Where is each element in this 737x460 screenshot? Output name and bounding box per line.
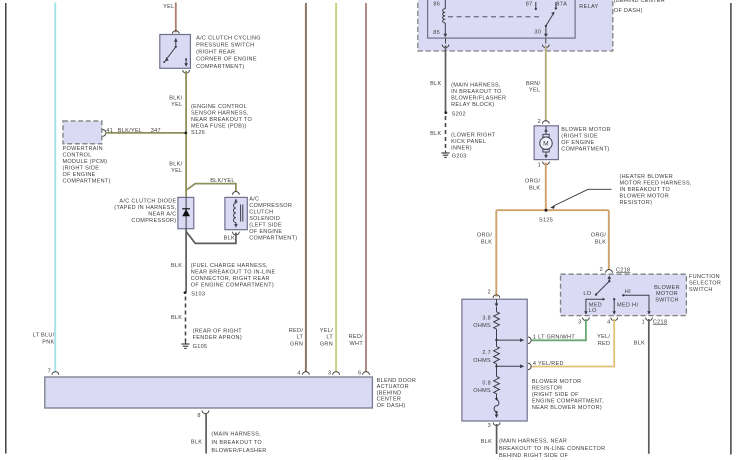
svg-text:FUNCTION: FUNCTION [689,274,720,280]
svg-text:YEL: YEL [163,4,174,10]
pin 1 (blower motor) [538,163,541,169]
actuator M1: blend door actuator box [45,377,373,408]
svg-text:CLUTCH: CLUTCH [249,210,273,216]
wire stub relay pin 30 [545,38,547,44]
label MED LO [589,302,602,314]
svg-text:COMPARTMENT): COMPARTMENT) [63,179,111,185]
svg-text:2: 2 [488,290,491,296]
connector at pressure switch pin (top) [172,31,179,34]
relay coil symbol [443,0,448,37]
svg-text:3.8: 3.8 [482,315,491,321]
ground G105 symbol [181,342,189,349]
switch HI contact and pin 1 path [622,294,651,315]
node S125 junction dot [545,209,548,212]
label: blend door actuator [377,378,417,409]
svg-text:YEL/: YEL/ [320,328,333,334]
wire tap 2 inside resistor [495,364,524,368]
svg-text:FENDER APRON): FENDER APRON) [193,335,242,341]
svg-text:(ENGINE CONTROL: (ENGINE CONTROL [191,104,247,110]
svg-text:COMPARTMENT): COMPARTMENT) [249,236,297,242]
svg-text:CONTROL: CONTROL [63,153,92,159]
svg-text:BLK: BLK [634,341,645,347]
wire YEL/RED (switch pin 4 to resistor tap 2) [532,319,615,367]
svg-text:(LEFT SIDE: (LEFT SIDE [249,223,282,229]
pin 8 (actuator) [197,413,200,419]
value label BLK (resistor ground wire) [481,439,492,445]
pin 3 (actuator) [328,370,331,376]
ground G203 symbol [441,151,449,158]
svg-text:C218: C218 [653,319,667,325]
svg-text:MODULE (PCM): MODULE (PCM) [63,159,108,165]
pin 87 [526,1,533,7]
svg-text:COMPRESSOR): COMPRESSOR) [131,218,176,224]
svg-text:LO: LO [583,291,591,297]
resistor entry arrow [495,299,499,311]
svg-text:RED: RED [598,341,611,347]
svg-text:30: 30 [534,30,541,36]
svg-text:SENSOR HARNESS,: SENSOR HARNESS, [191,110,249,116]
svg-text:GRN: GRN [320,341,333,347]
solenoid coil symbol [234,199,243,228]
label: S103 splice note [191,263,276,289]
wire: right page border [730,3,732,455]
pin bracket at resistor tap 2 [528,363,531,370]
svg-text:WHT: WHT [350,341,364,347]
svg-text:CENTER: CENTER [377,397,402,403]
svg-text:RED/: RED/ [289,328,304,334]
value label 3.8 OHMS [473,315,491,329]
svg-text:RED/: RED/ [349,334,364,340]
svg-text:4 YEL/RED: 4 YEL/RED [533,361,564,367]
label: S125 splice note (heater blower motor feed harness) [620,174,692,206]
relay mechanical link (dashed) [448,16,542,18]
svg-text:NEAR BREAKOUT TO: NEAR BREAKOUT TO [191,117,252,123]
wire tap 1 inside resistor [495,329,524,342]
svg-text:RELAY BLOCK): RELAY BLOCK) [451,102,494,108]
svg-text:SWITCH: SWITCH [689,287,713,293]
svg-text:0.8: 0.8 [482,380,491,386]
svg-text:G203: G203 [452,153,467,159]
svg-text:1 LT GRN/WHT: 1 LT GRN/WHT [533,335,575,341]
svg-text:LT: LT [297,335,304,341]
label: S126 splice note [191,104,252,136]
svg-text:(BEHIND: (BEHIND [377,390,402,396]
svg-text:ENGINE COMPARTMENT,: ENGINE COMPARTMENT, [532,398,604,404]
svg-text:(RIGHT SIDE: (RIGHT SIDE [63,166,100,172]
svg-text:YEL: YEL [529,88,540,94]
label: main harness note (bottom right) [499,439,605,460]
value label ORG/BLK (left branch) [477,233,492,246]
svg-text:(REAR OF RIGHT: (REAR OF RIGHT [193,328,243,334]
svg-text:LT: LT [326,335,333,341]
connector at actuator pin 8 [202,411,209,414]
switch S2: function selector switch dashed box [561,274,687,315]
pin 87A [556,1,567,7]
wire YEL (feed to pressure switch) [175,3,177,33]
svg-text:86: 86 [433,1,440,7]
svg-text:4: 4 [297,370,300,376]
connector at solenoid pin (top) [233,192,240,195]
wire RED/WHT (to actuator pin 6) [365,3,367,372]
svg-text:MOTOR: MOTOR [656,291,678,297]
svg-text:3: 3 [488,423,491,429]
solenoid L1: A/C compressor clutch solenoid box [225,197,247,229]
svg-text:2.7: 2.7 [482,350,491,356]
svg-text:BLK: BLK [430,81,441,87]
svg-text:RELAY: RELAY [579,4,598,10]
label: resistor tap 2 (4 YEL/RED) [533,361,564,367]
label G203 [452,153,467,159]
wire BLK (relay pin 85 to S202) [445,46,447,113]
svg-text:S202: S202 [452,111,466,117]
connector at actuator pin 4 [303,372,310,375]
relay K1: inner box [428,0,575,38]
label: blower motor resistor [532,379,604,411]
svg-text:S125: S125 [539,217,553,223]
connector at actuator pin 3 [333,372,340,375]
switch common arm [595,275,611,295]
svg-text:BLK: BLK [481,240,492,246]
label HI [625,289,631,295]
svg-text:3: 3 [328,370,331,376]
label S103 [191,291,205,297]
leader arrow to S125 [550,189,611,209]
value label YEL/RED [597,334,610,347]
value label 2.7 OHMS [473,350,491,364]
svg-text:BLOWER MOTOR: BLOWER MOTOR [561,127,611,133]
svg-text:S103: S103 [191,291,205,297]
connector at switch pin 4 [611,318,618,321]
value label LT BLU/PNK [33,333,55,346]
svg-text:CONNECTOR, RIGHT REAR: CONNECTOR, RIGHT REAR [191,276,270,282]
pin 6 (actuator) [358,370,361,376]
value label BLK (solenoid return) [224,235,235,241]
connector C218 at switch pin 2 [606,270,613,273]
relay switch arm [544,2,557,37]
connector at relay pin 30 [542,45,549,48]
connector at actuator pin 7 [52,372,59,375]
label: resistor tap 1 (1 LT GRN/WHT) [533,335,575,341]
svg-text:OF ENGINE: OF ENGINE [561,140,594,146]
wire ORG/BLK (S125 to resistor pin 2) [495,210,497,297]
svg-text:IN BREAKOUT TO: IN BREAKOUT TO [211,440,262,446]
svg-text:(MAIN HARNESS, NEAR: (MAIN HARNESS, NEAR [499,439,567,445]
switch MED HI contact and pin 4 path [612,298,616,315]
value label BLK/YEL (PCM wire) [118,128,143,134]
svg-text:(TAPED IN HARNESS,: (TAPED IN HARNESS, [114,205,176,211]
svg-text:COMPRESSOR: COMPRESSOR [249,203,292,209]
svg-text:1: 1 [538,163,541,169]
wire RED/LT GRN (to actuator pin 4) [305,3,307,372]
svg-text:BLK: BLK [481,439,492,445]
svg-text:GRN: GRN [290,341,303,347]
svg-text:4: 4 [607,320,610,326]
svg-text:LO: LO [589,308,597,314]
value label BLK (switch ground wire) [634,341,645,347]
svg-text:BLK: BLK [224,235,235,241]
switch MED LO contact and pin 3 path [584,298,605,315]
svg-text:OF ENGINE COMPARTMENT): OF ENGINE COMPARTMENT) [191,283,274,289]
diode symbol [182,197,190,228]
svg-text:MOTOR FEED HARNESS,: MOTOR FEED HARNESS, [620,180,692,186]
wire stub relay pin 85 [445,38,447,44]
pin 4 (actuator) [297,370,300,376]
label MED HI [617,303,638,309]
svg-text:BRN/: BRN/ [526,81,541,87]
pin 2 (resistor) [488,290,491,296]
svg-text:C218: C218 [616,267,630,273]
svg-text:G105: G105 [193,344,208,350]
svg-text:OHMS: OHMS [473,358,491,364]
label: ground location (lower right kick panel inner) [451,133,496,152]
svg-text:SWITCH: SWITCH [655,297,679,303]
wire BLK (resistor pin 3 down) [496,424,498,454]
svg-text:RESISTOR): RESISTOR) [620,200,653,206]
svg-text:A/C CLUTCH CYCLING: A/C CLUTCH CYCLING [196,36,261,42]
svg-text:BLEND DOOR: BLEND DOOR [377,378,417,384]
svg-text:ORG/: ORG/ [525,179,540,185]
label: A/C clutch cycling pressure switch [196,36,261,70]
svg-text:OF ENGINE: OF ENGINE [249,229,282,235]
svg-text:(RIGHT REAR: (RIGHT REAR [196,50,235,56]
resistor element 0.8 ohms [494,366,500,394]
pin bracket at resistor tap 1 [528,337,531,344]
connector C218 at switch pin 1 [646,318,653,321]
svg-text:RESISTOR: RESISTOR [532,386,563,392]
wire BLK (switch pin 1 down) [648,319,650,454]
svg-text:PRESSURE SWITCH: PRESSURE SWITCH [196,43,254,49]
connector at pressure switch pin (bottom) [183,70,190,73]
svg-text:BEHIND RIGHT SIDE OF: BEHIND RIGHT SIDE OF [499,453,569,459]
pressure switch contact symbol [163,38,188,67]
node S126 junction dot [184,132,187,135]
svg-text:PNK: PNK [42,340,54,346]
label: ground location (rear of right fender apron) [193,328,243,341]
svg-text:8: 8 [197,413,200,419]
label: A/C compressor clutch solenoid [249,197,297,242]
wire BLK (actuator pin 8 down) [205,413,207,454]
blower motor symbol [540,126,552,158]
svg-text:MEGA FUSE (PDB)): MEGA FUSE (PDB)) [191,123,247,129]
svg-text:OF DASH): OF DASH) [377,403,406,409]
pin 3 (switch) [578,320,581,326]
svg-text:MED HI: MED HI [617,303,638,309]
pin 85 [433,30,440,36]
value label BLK/YEL (branch) [210,178,235,184]
svg-text:85: 85 [433,30,440,36]
svg-text:2: 2 [538,119,541,125]
value label ORG/BLK (motor leg) [525,179,540,192]
svg-text:COMPARTMENT): COMPARTMENT) [561,147,609,153]
wire: left page border [5,3,7,454]
svg-text:A/C: A/C [249,197,259,203]
connector at resistor pin 2 [493,295,500,298]
wire BLK/YEL circuit 347 (PCM to S126) [106,132,185,134]
value label BLK (ground leg) [171,315,182,321]
value label YEL [163,4,174,10]
label S202 [452,111,466,117]
svg-text:ORG/: ORG/ [477,233,492,239]
svg-text:BLOWER/FLASHER: BLOWER/FLASHER [211,448,266,454]
wire BLK dashed (S202 to G203) [445,116,447,151]
connector at actuator pin 6 [363,372,370,375]
svg-text:YEL: YEL [171,168,182,174]
svg-text:ACTUATOR: ACTUATOR [377,384,409,390]
pin 3 (resistor) [488,423,491,429]
value label BRN/YEL [526,81,541,94]
label G105 [193,344,208,350]
connector at blower motor pin 2 [542,121,549,124]
wire ORG/BLK (S125 tee) [496,209,609,211]
svg-text:BLK: BLK [529,186,540,192]
label: relay location (behind center of dash) [614,0,665,14]
svg-text:BLK/: BLK/ [169,161,182,167]
svg-text:HI: HI [625,289,631,295]
label LO [583,291,591,297]
svg-text:IN BREAKOUT TO: IN BREAKOUT TO [620,187,671,193]
svg-text:BLK/YEL: BLK/YEL [210,178,235,184]
switch S1: A/C clutch cycling pressure switch box [160,35,191,69]
value label RED/WHT [349,334,364,347]
svg-text:OHMS: OHMS [473,388,491,394]
svg-text:BLK: BLK [171,315,182,321]
svg-text:(RIGHT SIDE OF: (RIGHT SIDE OF [532,392,579,398]
svg-text:A/C CLUTCH DIODE: A/C CLUTCH DIODE [119,198,176,204]
pin 4 (switch) [607,320,610,326]
label C218 (bottom) [653,319,667,325]
wire BLK (diode to S103) [185,229,187,293]
node S202 junction dot [444,111,447,114]
pin 2 (switch C218) [600,267,603,273]
svg-text:BLOWER: BLOWER [654,285,680,291]
svg-text:KICK PANEL: KICK PANEL [451,139,486,145]
svg-text:BLK: BLK [595,240,606,246]
connector at relay pin 85 [442,45,449,48]
svg-text:7: 7 [48,369,51,375]
wire BLK dashed (S103 to G105) [185,297,187,342]
svg-text:(LOWER RIGHT: (LOWER RIGHT [451,133,496,139]
wire BLK/YEL (S126 to diode) [185,133,187,197]
label: S202 splice note [451,83,506,109]
svg-text:BLOWER/FLASHER: BLOWER/FLASHER [451,96,506,102]
svg-text:87A: 87A [556,1,567,7]
connector at switch pin 3 [583,318,590,321]
relay K1: outer dashed box [418,0,613,51]
wire YEL/LT GRN (to actuator pin 3) [335,3,337,372]
svg-text:NEAR BREAKOUT TO IN-LINE: NEAR BREAKOUT TO IN-LINE [191,269,276,275]
svg-text:BLOWER MOTOR: BLOWER MOTOR [620,193,670,199]
svg-text:SELECTOR: SELECTOR [689,281,721,287]
resistor R1-R3: blower motor resistor box [462,299,527,421]
svg-text:1: 1 [642,320,645,326]
relay 87 terminal [535,2,537,10]
wire ORG/BLK (blower motor to S125) [545,163,547,211]
svg-text:6: 6 [358,370,361,376]
svg-text:(MAIN HARNESS,: (MAIN HARNESS, [451,83,501,89]
pin 86 [433,1,440,7]
diode CR1: A/C clutch diode box [178,197,194,228]
pin 2 (blower motor) [538,119,541,125]
pin 1 (switch) [642,320,645,326]
svg-text:(RIGHT SIDE: (RIGHT SIDE [561,134,598,140]
value label 0.8 OHMS [473,380,491,394]
wire BLK/YEL branch to solenoid [186,184,236,192]
svg-text:BREAKOUT TO IN-LINE CONNECTOR: BREAKOUT TO IN-LINE CONNECTOR [499,446,605,452]
wire LT GRN/WHT (switch pin 3 to resistor tap 1) [532,319,586,340]
thermal limiter squiggle [494,394,499,418]
value label BLK/YEL (upper) [169,96,182,109]
value label BLK (above S103) [171,263,182,269]
svg-text:OF ENGINE: OF ENGINE [63,172,96,178]
svg-text:YEL/: YEL/ [597,334,610,340]
circuit number 347 [151,128,161,134]
svg-text:S126: S126 [191,130,205,136]
resistor element 3.8 ohms [494,312,500,329]
connector at blower motor pin 1 [543,162,550,165]
value label BLK (G203 leg) [430,131,441,137]
svg-text:(HEATER BLOWER: (HEATER BLOWER [620,174,674,180]
label RELAY [579,4,598,10]
pin 41 [106,128,113,134]
svg-text:IN BREAKOUT TO: IN BREAKOUT TO [451,89,502,95]
value label BLK/YEL (lower) [169,161,182,174]
pin bracket at PCM pin 41 [103,130,106,137]
svg-text:OHMS: OHMS [473,323,491,329]
node S103 junction dot [184,291,187,294]
label S125 [539,217,553,223]
pin 7 [48,369,51,375]
svg-text:SOLENOID: SOLENOID [249,216,280,222]
connector at resistor pin 3 [493,423,500,426]
label C218 (top) [616,267,630,273]
svg-text:NEAR A/C: NEAR A/C [148,211,176,217]
svg-text:87: 87 [526,1,533,7]
svg-text:YEL: YEL [171,102,182,108]
wire BLK (solenoid return to diode leg) [186,232,236,244]
wire BLK/YEL (pressure switch to S126) [185,71,187,133]
connector at solenoid pin (bottom) [233,232,240,235]
wire LT BLU/PNK (to blend door actuator pin 7) [54,3,56,373]
label: main harness note (bottom left) [211,432,266,454]
label: blower motor [561,127,611,153]
value label BLK (actuator ground wire) [191,439,202,445]
svg-text:LT BLU/: LT BLU/ [33,333,55,339]
svg-text:COMPARTMENT): COMPARTMENT) [196,64,244,70]
module U1: powertrain control module (PCM) box [63,121,102,144]
svg-text:NEAR BLOWER MOTOR): NEAR BLOWER MOTOR) [532,405,602,411]
svg-text:POWERTRAIN: POWERTRAIN [63,146,103,152]
svg-text:BLOWER MOTOR: BLOWER MOTOR [532,379,582,385]
resistor element 2.7 ohms [494,340,500,364]
svg-text:BLK: BLK [171,263,182,269]
pin 30 [534,30,541,36]
label: blower motor switch [654,285,680,303]
value label ORG/BLK (right branch) [591,233,606,246]
wire ORG/BLK (S125 to switch pin 2) [608,210,610,270]
svg-text:BLK: BLK [191,439,202,445]
wire BRN/YEL (relay pin 30 to blower motor) [545,46,547,122]
value label BLK (relay ground) [430,81,441,87]
svg-text:CORNER OF ENGINE: CORNER OF ENGINE [196,57,257,63]
label: A/C clutch diode [114,198,176,224]
value label YEL/LT GRN [320,328,334,348]
svg-text:2: 2 [600,267,603,273]
svg-text:OF DASH): OF DASH) [614,8,643,14]
svg-text:M: M [543,141,549,148]
label: function selector switch [689,274,721,293]
value label RED/LT GRN [289,328,304,348]
svg-text:BLK: BLK [430,131,441,137]
